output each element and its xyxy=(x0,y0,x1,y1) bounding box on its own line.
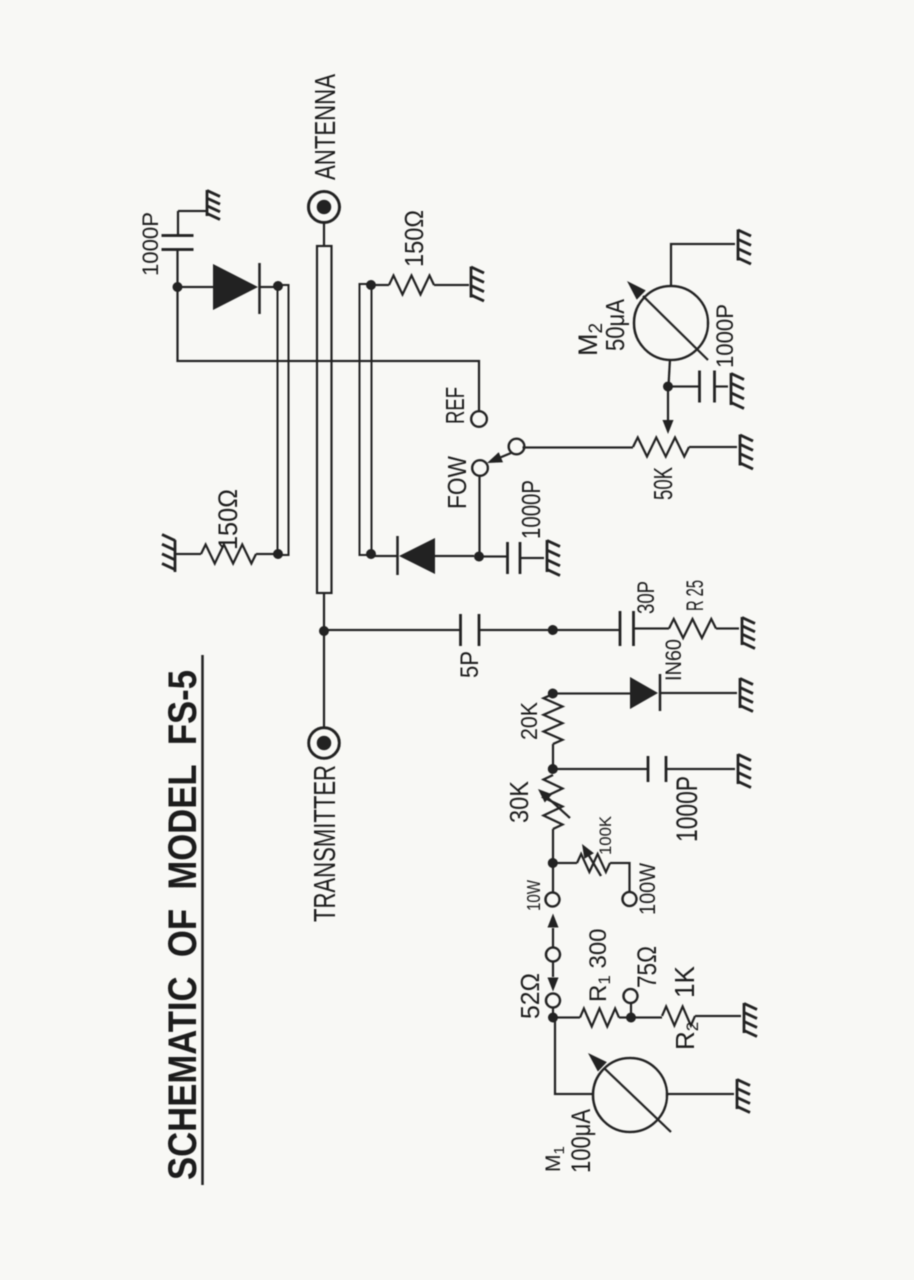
wire junction E to meter M1 xyxy=(555,1018,594,1095)
node chain junction B xyxy=(548,689,558,699)
label 52ohm xyxy=(515,973,545,1019)
svg-text:100K: 100K xyxy=(596,815,615,855)
svg-text:R 25: R 25 xyxy=(682,580,709,611)
wire 100K to 100W contact xyxy=(610,863,630,891)
svg-text:R1 300: R1 300 xyxy=(585,928,614,1002)
wire R-term1 to ground xyxy=(176,553,201,555)
svg-text:FOW: FOW xyxy=(442,456,472,509)
ground for 50K xyxy=(740,435,753,470)
wire M2 junction to meter xyxy=(669,359,671,387)
wire C2 to ground xyxy=(520,557,544,559)
svg-text:30P: 30P xyxy=(633,581,660,614)
wire junction D to 10W contact xyxy=(552,863,554,892)
svg-text:100W: 100W xyxy=(635,863,660,915)
node junction on transmitter wire xyxy=(319,626,329,636)
switch contact 75ohm xyxy=(624,989,638,1003)
wire R2 to ground xyxy=(695,1015,741,1017)
label 30P xyxy=(633,581,660,614)
wire C1 to ground xyxy=(178,211,207,236)
wire junction B to diode D3 xyxy=(553,692,630,694)
title underline xyxy=(201,655,204,1185)
svg-text:1000P: 1000P xyxy=(516,480,546,539)
wire M1 to ground xyxy=(667,1093,734,1095)
wire J1 to main line bar xyxy=(323,593,325,729)
svg-text:150Ω: 150Ω xyxy=(399,210,429,267)
ground for C1 xyxy=(207,190,220,220)
resistor R25 xyxy=(669,619,716,638)
node FOW junction xyxy=(474,552,484,562)
switch pole contact xyxy=(546,948,560,962)
wire node to capacitor C1 xyxy=(176,250,178,287)
wire upper pickup to diode D1 xyxy=(260,286,278,288)
label TRANSMITTER xyxy=(307,765,342,922)
potentiometer 30K xyxy=(544,775,563,829)
label 50K xyxy=(648,467,678,500)
wiper arrow of 50K xyxy=(663,387,674,434)
wire lower pickup to resistor R-term2 xyxy=(372,284,390,286)
label 1K xyxy=(669,966,700,998)
label REF xyxy=(440,387,470,424)
switch wiper arrow (common to FOW) xyxy=(487,452,511,463)
svg-text:10W: 10W xyxy=(524,880,544,911)
ground for R-term1 (inverted) xyxy=(162,535,175,573)
node chain junction F xyxy=(626,1013,636,1023)
label 50uA xyxy=(600,298,630,351)
wire R1 to junction F xyxy=(619,1016,631,1018)
svg-text:100μA: 100μA xyxy=(566,1109,596,1173)
wire bar to antenna connector xyxy=(323,221,325,246)
label 150ohm lower xyxy=(399,210,429,267)
node chain junction A xyxy=(548,625,558,635)
label 1000P (C3) xyxy=(712,304,739,368)
node lower pickup left end xyxy=(366,549,376,559)
node upper pickup left end xyxy=(273,549,283,559)
connector J1 TRANSMITTER xyxy=(309,728,340,759)
capacitor C6 1000P xyxy=(648,756,666,782)
wire 50K to ground xyxy=(689,446,737,448)
wire REF feed line xyxy=(178,287,480,411)
ground for C3 xyxy=(731,373,744,409)
wire C3 to ground xyxy=(715,385,729,387)
svg-text:30K: 30K xyxy=(504,780,534,823)
wire junction F to R2 xyxy=(631,1016,662,1018)
resistor R1 300 xyxy=(580,1009,619,1027)
wire 30P to R25 xyxy=(634,627,670,629)
potentiometer 50K xyxy=(633,438,689,457)
label 75ohm xyxy=(632,946,662,988)
svg-text:IN60: IN60 xyxy=(661,639,686,681)
wire 5P to chain junction xyxy=(479,629,553,631)
meter M2 circle xyxy=(634,286,708,360)
svg-text:TRANSMITTER: TRANSMITTER xyxy=(307,765,342,922)
label M2 xyxy=(573,323,607,356)
switch contact 100W xyxy=(623,892,637,906)
switch common contact xyxy=(509,439,525,455)
label IN60 xyxy=(661,639,686,681)
switch contact 52ohm xyxy=(546,994,560,1008)
label 100W xyxy=(635,863,660,915)
wire common contact to 50K xyxy=(523,446,634,448)
svg-text:REF: REF xyxy=(440,387,470,424)
wire 30K to junction D xyxy=(552,829,554,863)
svg-text:75Ω: 75Ω xyxy=(632,946,662,988)
wire FOW node down to C2 xyxy=(479,555,508,557)
wire junction C to C6 xyxy=(553,768,648,770)
capacitor C4 5P xyxy=(461,614,480,646)
switch contact 10W xyxy=(546,893,560,907)
svg-text:ANTENNA: ANTENNA xyxy=(310,74,342,180)
wire FOW node to FOW contact xyxy=(478,476,480,557)
wire junction D to 100K xyxy=(553,862,577,864)
switch contact REF xyxy=(471,411,487,427)
resistor 150ohm upper termination xyxy=(201,545,256,564)
svg-text:1000P: 1000P xyxy=(671,776,704,842)
resistor 150ohm lower termination xyxy=(389,276,434,295)
resistor 20K xyxy=(544,694,563,744)
node chain junction E xyxy=(548,1013,558,1023)
label 10W xyxy=(524,880,544,911)
meter M1 circle xyxy=(593,1058,667,1132)
svg-text:20K: 20K xyxy=(516,701,542,740)
svg-text:50K: 50K xyxy=(648,467,678,500)
svg-text:1000P: 1000P xyxy=(712,304,739,368)
wire junction B to junction C xyxy=(552,744,554,769)
label 30K xyxy=(504,780,534,823)
potentiometer 100K xyxy=(577,854,610,872)
wire junction F to 75ohm contact xyxy=(630,1003,632,1018)
svg-text:1K: 1K xyxy=(669,966,700,998)
svg-text:SCHEMATIC OF MODEL FS-5: SCHEMATIC OF MODEL FS-5 xyxy=(161,670,205,1180)
label M1 xyxy=(542,1146,568,1172)
label 1000P (C2) xyxy=(516,480,546,539)
switch wiper arrow toward 10W xyxy=(548,914,559,948)
wiper arrow of 100K xyxy=(582,844,601,876)
svg-text:5P: 5P xyxy=(456,651,484,678)
capacitor C2 1000P xyxy=(508,542,521,574)
wire junction E to R1 xyxy=(553,1016,580,1018)
wire main line to 5P column xyxy=(324,629,461,631)
node M2 junction xyxy=(663,382,673,392)
label R 25 xyxy=(682,580,709,611)
pickup line lower (coupled line) xyxy=(360,284,372,555)
pickup line upper (coupled line) xyxy=(278,285,289,555)
label 100uA xyxy=(566,1109,596,1173)
label 1000P (C6) xyxy=(671,776,704,842)
node chain junction C xyxy=(548,764,558,774)
svg-text:52Ω: 52Ω xyxy=(515,973,545,1019)
label R2 xyxy=(670,1022,702,1050)
label 100K xyxy=(596,815,615,855)
main transmission line bar xyxy=(317,246,332,593)
node lower pickup right end xyxy=(366,280,376,290)
node chain junction D xyxy=(548,858,558,868)
meter M1 needle xyxy=(588,1053,671,1132)
svg-text:50μA: 50μA xyxy=(600,298,630,351)
wire M2 junction to C3 xyxy=(668,385,700,387)
diode D1 (reflected detector) xyxy=(177,263,260,314)
label 1000P (C1) xyxy=(138,212,163,276)
capacitor C1 1000P xyxy=(162,236,194,250)
svg-text:1000P: 1000P xyxy=(138,212,163,276)
capacitor C5 30P xyxy=(620,611,634,646)
meter M2 needle xyxy=(627,281,708,360)
ground for C2 xyxy=(547,540,560,576)
wiper arrow of 30K xyxy=(538,789,570,818)
connector J2 ANTENNA xyxy=(309,192,340,223)
wire M2 to ground (top) xyxy=(671,244,735,286)
label FOW xyxy=(442,456,472,509)
ground for R-term2 xyxy=(471,267,484,302)
ground for C6 xyxy=(738,754,751,788)
ground for M1 xyxy=(737,1079,750,1113)
node upper pickup right end xyxy=(273,281,283,291)
ground for M2 xyxy=(738,230,751,265)
switch contact FOW xyxy=(472,460,488,476)
label 20K xyxy=(516,701,542,740)
diode D3 IN60 xyxy=(630,674,737,711)
ground for D3 xyxy=(740,678,753,712)
ground for R25 xyxy=(742,617,755,649)
label R1 300 xyxy=(585,928,614,1002)
wire R25 to ground xyxy=(716,627,739,629)
wire upper pickup to resistor R-term1 xyxy=(256,553,278,555)
svg-text:150Ω: 150Ω xyxy=(213,489,243,550)
resistor R2 1K xyxy=(662,1007,695,1026)
label 150ohm upper xyxy=(213,489,243,550)
label ANTENNA xyxy=(310,74,342,180)
wire R-term2 to ground xyxy=(434,284,469,286)
capacitor C3 1000P xyxy=(700,371,715,403)
label 5P xyxy=(456,651,484,678)
ground for R2 xyxy=(744,1003,757,1037)
title text SCHEMATIC OF MODEL FS-5 xyxy=(161,670,205,1180)
node D1 anode / REF line xyxy=(173,282,183,292)
wire 52ohm contact to junction E xyxy=(552,1008,554,1019)
wire C6 to ground xyxy=(666,768,735,770)
wire chain junction to 30P xyxy=(553,629,620,631)
diode D2 (forward detector) xyxy=(398,536,475,575)
switch wiper arrow toward 52ohm xyxy=(548,962,559,992)
wire lower pickup to diode D2 xyxy=(372,555,398,557)
